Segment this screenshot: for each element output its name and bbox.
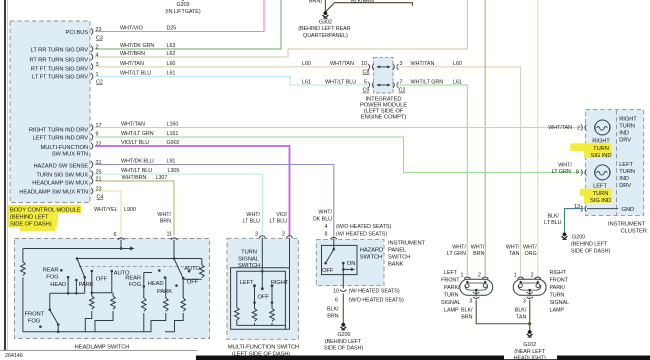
svg-text:WHT/YEL: WHT/YEL	[94, 207, 118, 213]
svg-text:TAN: TAN	[509, 251, 519, 257]
wire BRN into G302	[324, 0, 326, 13]
label RIGHT FRONT PARK/ TURN SIGNAL LAMP	[550, 270, 570, 314]
resistor R9 zigzag	[270, 309, 275, 322]
BCM pin 2 bracket	[91, 46, 93, 52]
MFS pin 3 bracket	[259, 236, 265, 238]
svg-text:21: 21	[96, 177, 102, 183]
svg-text:WHT/BRN: WHT/BRN	[120, 51, 145, 57]
svg-text:3: 3	[523, 298, 526, 304]
wire L161 WHT/LT GRN BCM 9 to cluster pin 8	[95, 137, 583, 172]
headlamp switch S1 box	[15, 239, 210, 339]
IPM pin 7 bracket	[393, 82, 399, 88]
svg-text:BRN: BRN	[473, 251, 484, 257]
svg-text:WHT/TAN: WHT/TAN	[330, 61, 354, 67]
lamp pin 1 bracket	[464, 277, 470, 279]
hazard pin bottom bracket	[340, 290, 346, 292]
front fog wiper blade	[50, 310, 58, 332]
junction dot head on bus	[67, 292, 70, 295]
lamp pin 3 lead	[529, 290, 531, 296]
wire rear fog right column with resistor R5	[144, 273, 152, 332]
junction dot RIGHT leg	[271, 301, 274, 304]
resistor R8 zigzag	[252, 309, 257, 322]
svg-text:SIDE OF DASH): SIDE OF DASH)	[324, 346, 363, 352]
svg-text:HAZARD: HAZARD	[360, 248, 383, 254]
label WHT/ DK BLU	[313, 210, 333, 223]
left front park/turn signal lamp E1	[460, 273, 493, 305]
wire resistor R4 right column	[183, 259, 202, 280]
MFS pin 2 bracket	[286, 236, 292, 238]
BCM pin 31 bracket	[91, 161, 93, 167]
svg-text:WHT/VIO: WHT/VIO	[120, 26, 143, 32]
svg-text:L61: L61	[167, 70, 176, 76]
wire L62 WHT/BRN	[95, 0, 467, 57]
contact dot ON	[342, 262, 345, 265]
wire pin 8 entry	[333, 240, 335, 250]
wire L900 WHT/YEL BCM 23 to headlamp switch pin 6	[95, 191, 121, 236]
svg-text:C9: C9	[363, 88, 370, 94]
label WHT/ LT GRN above left lamp	[447, 245, 467, 258]
contact dot LEFT	[253, 284, 256, 287]
wire ON drop	[342, 263, 344, 288]
svg-text:DRV: DRV	[619, 183, 631, 189]
label RIGHT TURN IND DRV	[619, 116, 637, 143]
label 6 (W/O HEATED SEATS)	[335, 298, 404, 304]
headlamp switch pin 11 bracket	[171, 238, 177, 240]
arrow ON	[343, 268, 351, 270]
svg-text:VIO/: VIO/	[276, 212, 287, 218]
contact dot REAR FOG left	[60, 269, 63, 272]
wire L63 WHT/DK GRN	[95, 0, 281, 49]
lamp pin 2 bracket	[535, 277, 541, 279]
integrated power module box	[374, 57, 393, 93]
svg-text:2: 2	[282, 232, 285, 238]
svg-text:RIGHT: RIGHT	[550, 270, 567, 276]
wire WHT/BRN park lamp feed to left lamp pin 2	[484, 0, 486, 276]
contact dot HEAD right	[164, 276, 167, 279]
svg-text:RT FT TURN SIG DRV: RT FT TURN SIG DRV	[31, 66, 88, 72]
hazard inner body box	[322, 245, 358, 274]
wire L60 WHT/TAN to IPM	[95, 66, 371, 68]
svg-text:DK BLU: DK BLU	[313, 216, 332, 222]
svg-text:C2: C2	[96, 80, 103, 86]
bulb left turn sig ind	[595, 165, 611, 180]
wire L60 WHT/TAN right of IPM to right lamp pin 1	[397, 67, 521, 276]
contact dot PARK right	[175, 284, 178, 287]
svg-text:TURN: TURN	[593, 191, 609, 197]
svg-text:WHT/LT BLU: WHT/LT BLU	[325, 79, 356, 85]
wire BLK/LT BLU cluster 13 to G200	[565, 209, 584, 233]
svg-text:3: 3	[255, 232, 258, 238]
headlamp switch label REAR FOG left	[43, 268, 59, 281]
svg-text:WHT/: WHT/	[157, 212, 171, 218]
BCM pin 23 C4 bracket	[91, 188, 93, 194]
svg-text:L307: L307	[156, 175, 168, 181]
svg-text:OFF: OFF	[187, 279, 199, 285]
svg-text:LEFT: LEFT	[240, 280, 254, 286]
svg-text:25: 25	[96, 170, 102, 176]
wire park right column with resistor R7	[165, 279, 183, 332]
ground G302	[298, 11, 351, 39]
svg-text:WHT/DK GRN: WHT/DK GRN	[120, 43, 154, 49]
headlamp switch internals	[21, 240, 205, 333]
svg-text:2: 2	[531, 273, 534, 279]
svg-text:OFF: OFF	[96, 277, 108, 283]
lamp pin 3 lead	[475, 290, 477, 296]
svg-text:(BEHIND LEFT: (BEHIND LEFT	[325, 339, 362, 345]
page bottom rule	[0, 350, 197, 352]
svg-text:WHT/TAN: WHT/TAN	[411, 61, 435, 67]
svg-text:WHT/LT GRN: WHT/LT GRN	[121, 131, 154, 137]
label WHT/ BRN vertical drop	[157, 212, 171, 225]
svg-text:GND: GND	[622, 207, 635, 213]
highlight left turn sig ind	[580, 189, 612, 203]
svg-text:IND: IND	[619, 176, 629, 182]
resistor R5 zigzag	[142, 298, 147, 311]
IPM pin 3 bracket	[393, 64, 399, 70]
wire front fog feed bus	[50, 292, 85, 294]
svg-text:FOG: FOG	[129, 282, 142, 288]
svg-text:INSTRUMENT: INSTRUMENT	[388, 241, 426, 247]
hazard pin 8 bracket top	[331, 237, 337, 239]
contact dot wiper tip OFF	[261, 287, 264, 290]
svg-text:MULTI-FUNCTION SWITCH: MULTI-FUNCTION SWITCH	[228, 345, 299, 351]
svg-text:TURN: TURN	[444, 293, 459, 299]
svg-text:(W/O HEATED SEATS): (W/O HEATED SEATS)	[349, 298, 404, 304]
cluster pin 13 bracket	[581, 206, 587, 212]
label BLK/ TAN	[515, 307, 527, 320]
svg-text:L61: L61	[302, 79, 311, 85]
wire L307 WHT/BRN BCM 21 to headlamp switch pin 11	[95, 181, 174, 236]
svg-text:G200: G200	[572, 235, 585, 241]
svg-text:SIG IND: SIG IND	[590, 198, 611, 204]
wire OFF left to resistor R2	[85, 271, 92, 332]
svg-text:WHT/DK BLU: WHT/DK BLU	[121, 159, 154, 165]
svg-text:FRONT: FRONT	[25, 311, 45, 317]
svg-text:MULTI-FUNCTION: MULTI-FUNCTION	[41, 145, 88, 151]
svg-text:BLK/: BLK/	[461, 307, 473, 313]
junction dot rear fog right	[143, 285, 146, 288]
svg-text:L60: L60	[167, 61, 176, 67]
svg-text:BRN: BRN	[461, 314, 472, 320]
highlight BODY CONTROL MODULE	[8, 205, 81, 231]
svg-text:TURN: TURN	[593, 146, 609, 152]
svg-text:L62: L62	[167, 51, 176, 57]
svg-text:TURN: TURN	[619, 169, 635, 175]
svg-text:L161: L161	[167, 131, 179, 137]
svg-text:11: 11	[167, 232, 173, 238]
svg-text:LEFT TURN IND DRV: LEFT TURN IND DRV	[33, 136, 89, 142]
svg-text:6: 6	[335, 298, 338, 304]
svg-text:WHT/TAN: WHT/TAN	[548, 125, 572, 131]
contact dot REAR FOG right	[158, 269, 161, 272]
resistor R2 zigzag	[90, 296, 95, 309]
svg-text:SW MUX RTN: SW MUX RTN	[52, 152, 88, 158]
svg-text:RT RR TURN SIG DRV: RT RR TURN SIG DRV	[29, 57, 88, 63]
contact dot OFF right / blade tip	[182, 277, 185, 280]
svg-text:LT BLU: LT BLU	[243, 219, 261, 225]
cluster pin 8 bracket	[581, 169, 587, 175]
resistor R6 zigzag	[164, 298, 169, 311]
svg-text:PARK: PARK	[79, 282, 94, 288]
svg-text:(W/ HEATED SEATS): (W/ HEATED SEATS)	[336, 231, 387, 237]
label 10 (W/ HEATED SEATS)	[333, 289, 400, 295]
svg-text:C2: C2	[399, 88, 406, 94]
svg-text:L305: L305	[168, 168, 180, 174]
label LEFT TURN IND DRV	[619, 162, 635, 189]
hazard internals	[322, 240, 358, 289]
BCM pin 9 bracket	[91, 134, 93, 140]
junction dot OFF-AUTO left	[91, 292, 94, 295]
wire wiper tip drop	[84, 277, 86, 293]
multi-function switch S2 box	[227, 238, 298, 339]
svg-text:PARK: PARK	[157, 289, 172, 295]
svg-text:L60: L60	[302, 61, 311, 67]
svg-text:REAR: REAR	[43, 268, 59, 274]
svg-text:DRV: DRV	[619, 137, 631, 143]
headlamp switch label REAR FOG right	[125, 275, 141, 288]
MFS caption TURN SIGNAL SWITCH	[238, 250, 260, 269]
svg-text:WHT/TAN: WHT/TAN	[121, 122, 145, 128]
MFS inner body box	[237, 271, 286, 329]
svg-text:2: 2	[96, 45, 99, 51]
svg-text:FRONT: FRONT	[441, 278, 460, 284]
svg-text:WHT/LT BLU: WHT/LT BLU	[120, 70, 151, 76]
svg-text:BLK/: BLK/	[327, 306, 339, 312]
svg-text:IND: IND	[619, 130, 629, 136]
wire GND internal	[587, 208, 618, 210]
wire head right column with resistor R6	[144, 278, 166, 332]
svg-text:PCI BUS: PCI BUS	[66, 30, 89, 36]
svg-text:10: 10	[361, 61, 367, 67]
resistor R1 zigzag	[21, 262, 26, 275]
MFS internals	[231, 238, 290, 330]
lamp pin 3 bracket	[473, 297, 479, 299]
svg-text:QUARTERPANEL): QUARTERPANEL)	[303, 33, 348, 39]
svg-text:PANEL: PANEL	[388, 248, 407, 254]
svg-text:LT GRN: LT GRN	[447, 251, 466, 257]
svg-text:C4: C4	[97, 195, 104, 201]
svg-text:TURN: TURN	[550, 293, 565, 299]
svg-text:RIGHT: RIGHT	[592, 139, 610, 145]
MFS outer body box	[231, 238, 290, 330]
resistor R7 zigzag	[181, 298, 186, 311]
svg-text:23: 23	[96, 187, 102, 193]
svg-text:OFF: OFF	[258, 295, 270, 301]
svg-text:WHT/: WHT/	[506, 245, 520, 251]
svg-text:G902: G902	[167, 140, 180, 146]
label BLK/ LT BLU	[544, 213, 562, 226]
svg-text:SIDE OF DASH): SIDE OF DASH)	[10, 222, 52, 228]
bulb right turn sig ind	[595, 120, 611, 135]
wire LEFT drop	[254, 286, 256, 326]
svg-text:SIGNAL: SIGNAL	[550, 300, 570, 306]
IPM internal arrow row 2	[377, 84, 390, 86]
svg-text:RIGHT TURN IND DRV: RIGHT TURN IND DRV	[29, 128, 88, 134]
svg-text:3: 3	[400, 61, 403, 67]
wire pin11 bus	[77, 240, 202, 259]
mechanical linkage dashed	[79, 266, 196, 268]
svg-text:2: 2	[478, 273, 481, 279]
BCM pin 4 bracket	[91, 54, 93, 60]
svg-text:HEADLAMP SW MUX: HEADLAMP SW MUX	[32, 181, 88, 187]
svg-text:5: 5	[364, 79, 367, 85]
svg-text:6: 6	[114, 232, 117, 238]
svg-text:SIG IND: SIG IND	[591, 153, 612, 159]
svg-text:8: 8	[576, 170, 579, 176]
contact dot AUTO right	[188, 270, 191, 273]
svg-text:LEFT: LEFT	[593, 184, 607, 190]
wire BLK/BRN hazard to G200	[342, 294, 344, 324]
svg-text:L900: L900	[124, 207, 136, 213]
contact dot FRONT FOG	[39, 325, 42, 328]
junction dot left wiper pivot	[76, 257, 79, 260]
svg-text:BLK/: BLK/	[515, 307, 527, 313]
label WHT/ BRN above left lamp	[471, 245, 485, 258]
svg-text:HAZARD SW SENSE: HAZARD SW SENSE	[33, 164, 88, 170]
svg-text:BLK/: BLK/	[548, 213, 560, 219]
svg-text:G303: G303	[177, 2, 190, 8]
lamp body	[513, 279, 546, 295]
wire RIGHT drop	[271, 286, 273, 326]
lamp pin 2 bracket	[482, 277, 488, 279]
page left border	[5, 0, 8, 351]
junction dot pin6	[120, 247, 123, 250]
MFS caption MULTI-FUNCTION SWITCH (LEFT SIDE OF DASH)	[228, 345, 299, 358]
svg-text:WHT/LT BLU: WHT/LT BLU	[121, 168, 152, 174]
svg-text:REAR: REAR	[125, 275, 141, 281]
wire WHT/ORG park lamp feed to right lamp pin 2	[537, 0, 539, 276]
svg-text:BANK: BANK	[388, 262, 404, 268]
svg-text:LT FT TURN SIG DRV: LT FT TURN SIG DRV	[32, 75, 88, 81]
lamp filament	[465, 281, 488, 290]
svg-text:INSTRUMENT: INSTRUMENT	[608, 221, 646, 227]
wire BLK/BRN left lamp ground	[476, 300, 530, 324]
wire L61 WHT/LT BLU to IPM	[95, 76, 371, 85]
wire BLK/TAN right lamp ground	[529, 300, 531, 331]
svg-text:(BEHIND LEFT: (BEHIND LEFT	[10, 215, 49, 221]
svg-text:TURN: TURN	[619, 123, 635, 129]
ground G200 cluster	[562, 233, 611, 255]
wire pin 3 wiper	[261, 238, 263, 289]
lamp filament	[518, 281, 541, 290]
svg-text:LT GRN: LT GRN	[552, 169, 571, 175]
contact dot RIGHT	[271, 284, 274, 287]
hazard caption HAZARD SWITCH	[360, 248, 383, 261]
svg-text:WHT/: WHT/	[558, 163, 572, 169]
resistor R10 zigzag left edge	[235, 308, 240, 326]
svg-text:SIGNAL: SIGNAL	[238, 256, 260, 262]
label 8 (W/ HEATED SEATS)	[325, 231, 388, 237]
lamp pin 3 bracket	[527, 297, 533, 299]
svg-text:(BEHIND LEFT REAR: (BEHIND LEFT REAR	[298, 26, 351, 32]
svg-text:WHT/TAN: WHT/TAN	[120, 61, 144, 67]
svg-text:PARK/: PARK/	[444, 285, 460, 291]
contact dot HEAD left	[67, 276, 70, 279]
wire D25 WHT/VIO PCI bus	[95, 0, 264, 32]
svg-text:LEFT: LEFT	[444, 270, 458, 276]
label WHT/ TAN above right lamp	[506, 245, 520, 258]
svg-text:SIDE OF DASH): SIDE OF DASH)	[571, 249, 610, 255]
svg-text:(IN LIFTGATE): (IN LIFTGATE)	[165, 9, 200, 15]
contact dot AUTO left	[111, 270, 114, 273]
left wiper blade	[77, 259, 85, 277]
svg-text:TAN: TAN	[516, 314, 526, 320]
wire front fog pivot drop	[49, 293, 51, 309]
svg-text:CLUSTER: CLUSTER	[621, 228, 647, 234]
wire HEAD left drop	[67, 277, 69, 293]
BCM pin 21 bracket	[91, 178, 93, 184]
junction dot LEFT leg	[253, 301, 256, 304]
svg-text:HEADLAMP SWITCH: HEADLAMP SWITCH	[75, 345, 130, 351]
junction dot wiper top	[261, 270, 264, 273]
instrument cluster box	[586, 110, 644, 216]
svg-text:OFF: OFF	[322, 268, 334, 274]
BCM pin 17 bracket	[91, 124, 93, 130]
wire AUTO left loop	[92, 271, 112, 293]
svg-text:BRN): BRN)	[309, 0, 322, 4]
svg-text:(BEHIND LEFT: (BEHIND LEFT	[571, 242, 608, 248]
lamp pin 1 bracket	[517, 277, 523, 279]
svg-text:ENGINE COMPT): ENGINE COMPT)	[361, 115, 407, 121]
highlight right turn sig ind	[570, 143, 611, 157]
svg-text:7: 7	[400, 79, 403, 85]
ground G303 (IN LIFTGATE)	[165, 0, 200, 15]
svg-text:L60: L60	[453, 61, 462, 67]
svg-text:2: 2	[577, 126, 580, 132]
page footer black bar	[196, 356, 650, 360]
hazard switch S3 box	[316, 240, 384, 286]
junction dot lamp grounds	[528, 322, 531, 325]
IPM pin 10 bracket	[368, 64, 374, 70]
label RIGHT TURN SIG IND	[591, 139, 612, 159]
label BLK/ BRN	[327, 306, 339, 319]
svg-text:1: 1	[514, 273, 517, 279]
label LEFT FRONT PARK/ TURN SIGNAL LAMP	[441, 270, 461, 314]
svg-text:17: 17	[96, 123, 102, 129]
svg-text:LAMP: LAMP	[550, 308, 565, 314]
lamp junction dot pin3	[528, 289, 531, 292]
svg-text:WHT/: WHT/	[318, 210, 332, 216]
lamp junction dot pin3	[475, 289, 478, 292]
BCM pin 23 bracket	[91, 28, 93, 34]
svg-text:ORG: ORG	[524, 251, 536, 257]
cluster caption INSTRUMENT CLUSTER	[608, 221, 647, 234]
svg-text:WHT/: WHT/	[246, 212, 260, 218]
wire BLK/BRN from G302	[325, 3, 412, 12]
svg-text:(LEFT SIDE OF DASH): (LEFT SIDE OF DASH)	[232, 351, 291, 357]
wire left edge with resistor R1	[22, 249, 24, 332]
svg-text:LAMP: LAMP	[444, 308, 459, 314]
IPM internal arrow row 1	[377, 66, 390, 68]
cluster internal dashed divider	[616, 110, 618, 215]
svg-text:FOG: FOG	[46, 275, 59, 281]
wire L160 WHT/TAN BCM 17 to cluster pin 2	[95, 127, 582, 129]
wire L91 WHT/DK BLU BCM 31 to hazard switch	[95, 165, 334, 240]
junction dot ON leg	[342, 268, 345, 271]
svg-text:LT BLU: LT BLU	[544, 220, 562, 226]
label BLK/ BRN	[461, 307, 473, 320]
ground G102	[514, 330, 546, 360]
svg-text:SWITCH: SWITCH	[360, 255, 382, 261]
svg-text:WHT/LT GRN: WHT/LT GRN	[411, 79, 444, 85]
svg-text:G102: G102	[523, 342, 536, 348]
svg-text:FOG: FOG	[28, 319, 41, 325]
BCM pin 22 bracket	[91, 143, 93, 149]
svg-text:RIGHT: RIGHT	[619, 116, 637, 122]
svg-text:BLK/BRN: BLK/BRN	[351, 0, 374, 4]
svg-text:LEFT: LEFT	[619, 162, 633, 168]
svg-text:WHT/: WHT/	[452, 245, 466, 251]
